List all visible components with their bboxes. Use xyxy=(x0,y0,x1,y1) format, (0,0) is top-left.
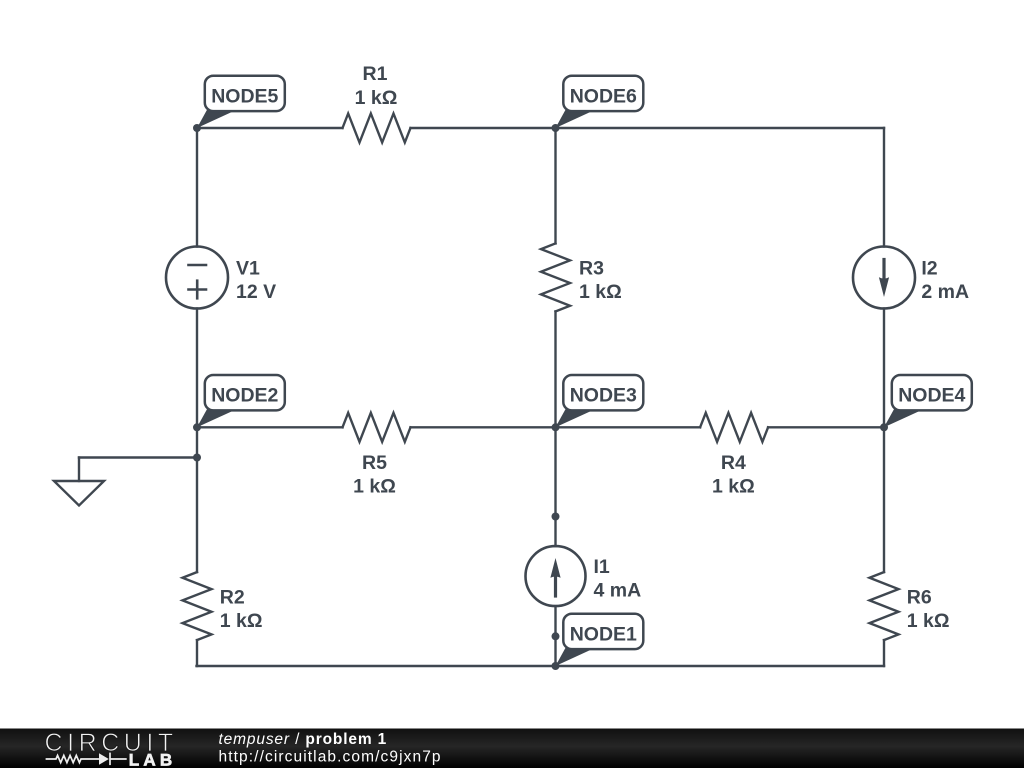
wire middle column: I1 to NODE1 xyxy=(554,636,556,666)
resistor R4 zigzag xyxy=(700,413,768,442)
current source I1 circle xyxy=(526,546,586,606)
svg-text:tempuser / problem 1: tempuser / problem 1 xyxy=(219,731,388,748)
svg-text:R6: R6 xyxy=(907,586,932,608)
wire right: I2 to NODE4 xyxy=(883,309,885,428)
wire top-right: NODE6 to corner xyxy=(556,127,885,129)
label R4 value xyxy=(712,452,755,497)
logo resistor-diode symbol xyxy=(46,753,127,766)
resistor R3 zigzag xyxy=(541,243,570,311)
wire middle column: NODE6 down to R3 xyxy=(554,128,556,243)
svg-text:NODE2: NODE2 xyxy=(211,385,278,407)
label R2 value xyxy=(220,586,263,632)
svg-text:1 kΩ: 1 kΩ xyxy=(353,475,396,497)
node label NODE5 xyxy=(197,76,285,128)
label R1 value xyxy=(355,63,398,109)
svg-text:NODE3: NODE3 xyxy=(570,385,637,407)
svg-text:NODE1: NODE1 xyxy=(570,623,637,645)
junction dot NODE2 xyxy=(193,423,201,431)
resistor R2 zigzag xyxy=(183,572,212,640)
svg-text:R2: R2 xyxy=(220,586,245,608)
junction dot NODE3 xyxy=(552,423,560,431)
wire ground branch horizontal xyxy=(79,456,197,458)
svg-text:R5: R5 xyxy=(362,452,387,474)
resistor R1 zigzag xyxy=(343,114,411,143)
svg-text:1 kΩ: 1 kΩ xyxy=(220,610,263,632)
node label NODE6 xyxy=(556,76,644,128)
label I1 value xyxy=(594,556,642,602)
label R6 value xyxy=(907,586,950,632)
junction dot ground tap xyxy=(193,454,201,462)
resistor R6 zigzag xyxy=(870,572,899,640)
wire right: corner down to I2 xyxy=(883,128,885,247)
svg-text:I2: I2 xyxy=(921,258,937,280)
wire left: NODE2 down to R2 xyxy=(196,427,198,572)
svg-text:NODE4: NODE4 xyxy=(898,385,965,407)
node label NODE1 xyxy=(556,614,644,666)
terminal dot I1 top xyxy=(552,513,560,521)
svg-text:V1: V1 xyxy=(236,258,260,280)
label R5 value xyxy=(353,452,396,497)
svg-text:http://circuitlab.com/c9jxn7p: http://circuitlab.com/c9jxn7p xyxy=(219,749,442,766)
label R3 value xyxy=(579,258,622,304)
label V1 value xyxy=(236,258,276,304)
wire middle rail: R5 to NODE3 to R4 xyxy=(411,426,701,428)
svg-text:R4: R4 xyxy=(721,452,746,474)
node label NODE3 xyxy=(556,375,644,427)
wire left: V1 down to NODE2 xyxy=(196,309,198,428)
I1 bottom lead xyxy=(554,606,556,636)
junction dot NODE4 xyxy=(880,423,888,431)
resistor R5 zigzag xyxy=(343,413,411,442)
wire top-left: NODE5 to R1 xyxy=(197,127,343,129)
svg-text:4 mA: 4 mA xyxy=(594,580,642,602)
svg-text:I1: I1 xyxy=(594,556,610,578)
V1 minus symbol xyxy=(189,264,207,267)
svg-text:1 kΩ: 1 kΩ xyxy=(712,475,755,497)
voltage source V1 circle xyxy=(166,247,228,309)
svg-text:2 mA: 2 mA xyxy=(921,281,969,303)
junction dot NODE5 xyxy=(193,124,201,132)
svg-text:LAB: LAB xyxy=(129,750,177,768)
I2 arrow (down) shaft xyxy=(882,260,885,279)
wire middle column: NODE3 down to I1 terminal xyxy=(554,427,556,516)
wire left: R2 to bottom corner xyxy=(196,640,198,666)
logo diode triangle xyxy=(99,753,109,765)
svg-text:NODE6: NODE6 xyxy=(570,85,637,107)
V1 plus symbol xyxy=(189,281,207,299)
node label NODE4 xyxy=(884,375,972,427)
wire top: R1 to NODE6 xyxy=(411,127,556,129)
wire middle column: R3 down to NODE3 xyxy=(554,311,556,427)
svg-text:R1: R1 xyxy=(363,63,388,85)
footer bar xyxy=(0,729,1024,768)
terminal dot I1 bottom xyxy=(552,632,560,640)
junction dot NODE6 xyxy=(552,124,560,132)
wire right: R6 to bottom corner xyxy=(883,640,885,666)
svg-text:R3: R3 xyxy=(579,258,604,280)
wire ground branch vertical xyxy=(78,458,80,482)
current source I2 circle xyxy=(853,247,915,309)
I1 top lead xyxy=(554,517,556,547)
wire bottom rail xyxy=(197,665,885,667)
wire right: NODE4 down to R6 xyxy=(883,427,885,572)
I2 arrowhead xyxy=(879,277,889,297)
I1 arrow (up) shaft xyxy=(554,576,557,596)
wire middle rail: NODE2 to R5 xyxy=(197,426,343,428)
svg-text:1 kΩ: 1 kΩ xyxy=(579,281,622,303)
node label NODE2 xyxy=(197,375,285,427)
ground triangle xyxy=(54,481,104,506)
svg-text:1 kΩ: 1 kΩ xyxy=(355,87,398,109)
wire left: NODE5 down to V1 xyxy=(196,128,198,247)
junction dot NODE1 xyxy=(552,662,560,670)
svg-text:12 V: 12 V xyxy=(236,281,276,303)
I1 arrowhead xyxy=(550,558,560,578)
svg-text:1 kΩ: 1 kΩ xyxy=(907,610,950,632)
label I2 value xyxy=(921,258,969,304)
svg-text:NODE5: NODE5 xyxy=(211,85,278,107)
wire middle rail: R4 to NODE4 xyxy=(768,426,884,428)
